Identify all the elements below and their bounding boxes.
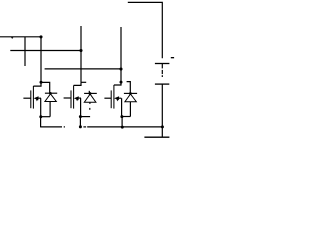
node A junction dot bbox=[39, 35, 42, 38]
wire M2 drain step bbox=[74, 82, 81, 85]
transistor M2 bulk arrowhead bbox=[74, 96, 79, 100]
wire M3 source lead bbox=[121, 98, 123, 116]
wire stub vertical x25 bbox=[24, 37, 26, 66]
wire leg2 drain rail bbox=[80, 26, 82, 82]
label minus sign of battery bbox=[171, 57, 174, 58]
wire D3 anode lead bbox=[129, 102, 131, 117]
node M3 drain dot bbox=[120, 81, 123, 84]
diode D1 cathode bar bbox=[45, 92, 57, 94]
leg 1 bbox=[23, 81, 57, 128]
wire gate lead M3 bbox=[104, 97, 111, 99]
wire M2 drain to D2 cathode faded bbox=[81, 81, 86, 83]
node D1 bar dot bbox=[49, 92, 52, 95]
diode D2 triangle bbox=[84, 94, 96, 102]
wire bottom bus segment 3 bbox=[121, 126, 162, 128]
wire M2 source lead bbox=[80, 98, 82, 117]
wire leg1 to bottom bus bbox=[40, 117, 42, 128]
node M3 source junction dot bbox=[120, 115, 123, 118]
wire battery dashed cell dash1 bbox=[161, 70, 163, 74]
wire D2 anode lead faded dash bbox=[89, 108, 91, 110]
diode D3 cathode bar bbox=[124, 92, 137, 94]
wire bottom bus segment 2 bbox=[87, 126, 121, 128]
diode D2 cathode bar bbox=[84, 92, 97, 94]
wire M1 source lead bbox=[40, 98, 42, 117]
transistor M2 bulk arrow shaft bbox=[76, 97, 81, 99]
wire M3 drain to D3 cathode faded bbox=[127, 82, 131, 93]
wire bottom bus dashes near leg2 bbox=[83, 126, 86, 128]
node M1 drain dot bbox=[40, 81, 43, 84]
wire leg3 drain rail bbox=[120, 27, 122, 82]
leg 2 bbox=[64, 82, 97, 127]
wire leg2 to bottom bus bbox=[79, 117, 81, 127]
wire bus D third phase output bbox=[45, 68, 121, 70]
wire D1 anode to source bbox=[41, 116, 50, 118]
transistor M3 bulk arrow shaft bbox=[117, 97, 122, 99]
wire M1 drain step bbox=[33, 82, 41, 86]
node leg3 bus dot bbox=[121, 126, 124, 129]
node M1 source junction dot bbox=[39, 115, 42, 118]
node D junction dot bbox=[119, 67, 122, 70]
wire bottom source bus segment 1 bbox=[41, 126, 62, 128]
ground bar node 0 bbox=[144, 136, 169, 138]
transistor M1 arrow smudge bbox=[36, 99, 38, 101]
wire D3 anode to source bbox=[122, 116, 130, 118]
wire M1 drain to D1 cathode bbox=[41, 82, 50, 93]
node tick on bus A bbox=[11, 37, 14, 39]
wire M3 drain step bbox=[114, 82, 121, 85]
transistor M1 channel bbox=[32, 86, 34, 109]
node battery-bus junction dot bbox=[161, 125, 164, 128]
transistor M3 bulk arrowhead bbox=[114, 96, 119, 100]
transistor M2 channel bbox=[73, 85, 75, 108]
diode D3 triangle bbox=[125, 94, 136, 102]
node D3 bar dot bbox=[129, 92, 132, 95]
node B junction dot bbox=[79, 49, 82, 52]
node D2 bar dot bbox=[89, 92, 92, 95]
wire battery dashed cell dash2 bbox=[161, 75, 163, 77]
wire battery inner stub bbox=[161, 64, 163, 69]
wire D2 anode to source bbox=[80, 116, 90, 118]
leg 3 bbox=[104, 81, 137, 128]
battery V1 top plate bbox=[155, 63, 170, 65]
transistor M1 gate plate bbox=[30, 90, 32, 108]
wire leg3 to bottom bus bbox=[121, 117, 123, 128]
transistor M3 gate plate bbox=[110, 90, 112, 108]
wire D1 anode lead bbox=[49, 102, 51, 117]
wire leg1 drain rail bbox=[40, 37, 42, 82]
wire D2 anode stub below base bbox=[89, 102, 91, 104]
diode D1 triangle bbox=[45, 94, 56, 102]
transistor M1 bulk arrowhead bbox=[34, 96, 39, 100]
wire battery negative lead bbox=[161, 84, 163, 137]
transistor M3 channel bbox=[113, 85, 115, 109]
wire D2 cathode lead faded bbox=[88, 91, 90, 94]
wire bottom bus faded dot bbox=[64, 126, 65, 128]
node leg2 bus dot bbox=[79, 125, 82, 128]
wire gate lead M2 bbox=[64, 97, 71, 99]
wire gate lead M1 bbox=[23, 97, 30, 99]
wire bus A left phase output bbox=[0, 36, 42, 38]
transistor M2 arrow smudge bbox=[76, 99, 78, 101]
battery V1 bottom plate bbox=[155, 83, 169, 85]
wire top dc rail bbox=[128, 2, 163, 58]
transistor M2 gate plate bbox=[70, 90, 72, 108]
wire bus B second phase output bbox=[10, 50, 81, 52]
transistor M1 bulk arrow shaft bbox=[36, 97, 41, 99]
node M2 source junction dot bbox=[79, 115, 82, 118]
transistor M3 arrow smudge bbox=[116, 99, 118, 101]
